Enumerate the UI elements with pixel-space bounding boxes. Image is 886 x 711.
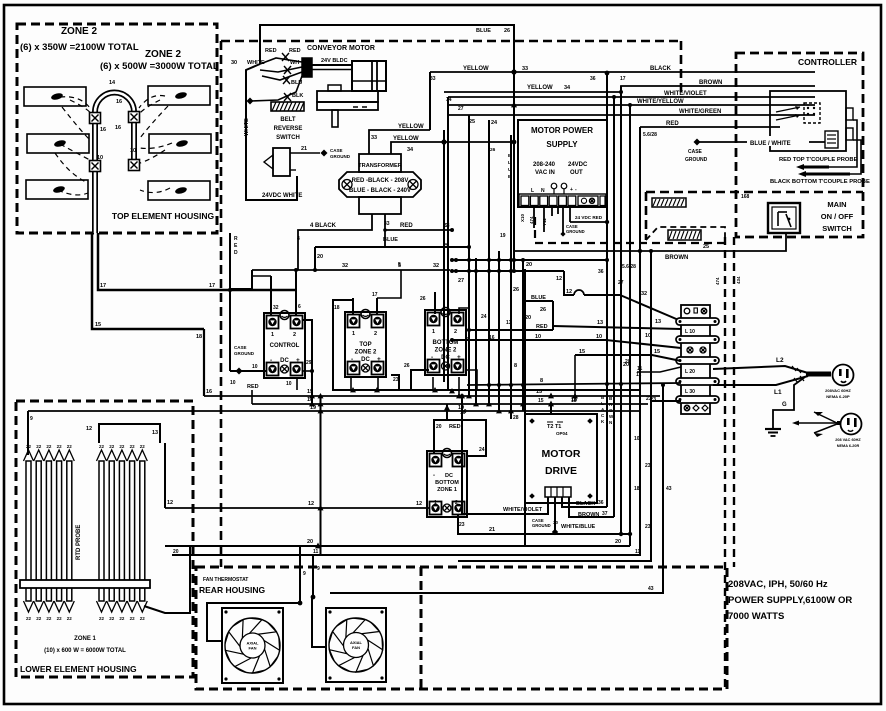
fan return wire [330,592,660,594]
svg-text:30: 30 [553,520,559,525]
wire 12 jog [556,271,620,295]
wire 32 drop to control relay [252,276,279,316]
belt reverse switch text [274,117,303,141]
svg-text:CASE: CASE [330,148,343,153]
svg-text:4: 4 [297,236,300,242]
svg-text:6: 6 [298,304,301,310]
cooling fan FAN1 [222,608,283,683]
cooling fan FAN2 [326,608,386,682]
svg-text:L1: L1 [774,389,782,396]
svg-text:10: 10 [97,155,103,161]
svg-text:36: 36 [590,76,596,82]
vertical WHITE label [244,118,250,136]
case ground label (controller) [685,149,708,163]
element wire connector J1 [90,113,101,124]
svg-text:REAR HOUSING: REAR HOUSING [199,585,266,595]
controller connector [776,103,820,123]
bus 18 [252,390,648,404]
svg-text:17: 17 [620,76,626,82]
svg-text:168: 168 [741,194,750,200]
svg-text:RED: RED [400,223,413,229]
svg-text:WHITE/YELLOW: WHITE/YELLOW [637,99,684,105]
svg-text:22: 22 [119,616,125,621]
svg-text:Y11: Y11 [542,218,547,226]
leg labels [95,283,215,340]
svg-text:BLACK BOTTOM T'COUPLE PROBE: BLACK BOTTOM T'COUPLE PROBE [770,179,870,185]
svg-text:BLK: BLK [292,93,303,99]
svg-text:26: 26 [504,28,510,34]
svg-text:24: 24 [491,120,498,126]
svg-text:22: 22 [36,616,42,621]
red wire down dashed edge [228,233,232,371]
svg-text:CASE: CASE [234,345,247,350]
svg-text:BLUE - BLACK - 240V: BLUE - BLACK - 240V [349,188,411,194]
svg-text:CONTROL: CONTROL [270,343,300,349]
svg-text:BOTTOM: BOTTOM [433,340,459,346]
svg-text:2: 2 [374,331,377,337]
svg-text:15: 15 [95,322,101,328]
element wire connector J2 [129,112,140,123]
svg-text:DC: DC [445,473,453,479]
top feed wire [260,25,517,269]
svg-text:FAN: FAN [352,645,360,650]
svg-text:18: 18 [571,398,577,404]
svg-text:RED: RED [289,48,301,54]
main on off switch divider [646,192,863,240]
transformer secondary red wire [384,214,452,230]
svg-text:CASE: CASE [688,149,703,155]
relay bottom terminal stubs [297,377,459,396]
heating element E4 (top housing) [148,86,210,105]
wire 32 diagonal into block [620,291,681,321]
svg-text:36: 36 [598,500,604,506]
svg-text:L: L [601,401,604,406]
svg-text:ZONE 2: ZONE 2 [145,49,182,60]
svg-text:25: 25 [469,119,475,125]
svg-text:10: 10 [130,148,136,154]
zone 1 text [44,636,126,654]
white-green wire [448,109,815,115]
svg-text:22: 22 [130,616,136,621]
blue wire label 26 [476,28,510,34]
svg-text:30: 30 [231,60,237,66]
svg-text:(10) x 600 W = 6000W TOTAL: (10) x 600 W = 6000W TOTAL [44,648,126,654]
svg-text:MAIN: MAIN [827,200,846,209]
bus 32 [230,263,450,289]
svg-text:26: 26 [420,296,426,302]
svg-text:12: 12 [86,426,92,432]
svg-text:11: 11 [636,372,642,378]
svg-text:208 VAC 60HZ: 208 VAC 60HZ [835,438,861,442]
wire 11 into block [637,366,681,372]
vertical bus 33 [429,72,431,130]
svg-text:33: 33 [384,221,390,227]
white-yellow wire [448,99,815,107]
mid vertical 320 [318,393,324,555]
dashed box below power supply [535,217,727,243]
svg-text:12: 12 [566,289,572,295]
switch output brown wire [514,233,786,261]
L wire 20 [625,103,632,546]
svg-text:2: 2 [454,329,457,335]
svg-text:22: 22 [67,444,73,449]
lower element housing enclosure [16,401,193,677]
svg-text:24VDC WHITE: 24VDC WHITE [262,193,302,199]
svg-text:ZONE 2: ZONE 2 [435,348,457,354]
svg-text:12: 12 [308,501,314,507]
svg-text:34: 34 [564,85,571,91]
solid state relay BOTTOM ZONE 2 [425,308,466,376]
transformer primary yellow wire 34 [391,136,514,154]
rear housing enclosure [196,567,727,689]
black wire motor drive [562,497,607,507]
motor connector plug [302,58,348,77]
svg-text:11: 11 [313,549,319,555]
transformer secondary black wire [297,214,372,270]
conveyor motor label [307,45,375,52]
arch wire labels [97,80,136,161]
top zone 2 relay stubs [353,262,401,314]
motor wire RED [260,48,302,64]
svg-text:27: 27 [458,278,464,284]
svg-text:32: 32 [273,305,279,311]
svg-text:1: 1 [432,329,435,335]
svg-text:13: 13 [597,320,603,326]
svg-text:20: 20 [307,539,313,545]
L wire 23 [458,249,653,561]
bus 11 bottom [172,549,641,555]
svg-text:22: 22 [57,444,63,449]
fuse block F2 [668,230,701,240]
fan1 feed wire [207,546,306,641]
lower housing feed wire [28,411,33,455]
svg-text:16: 16 [115,125,121,131]
wire 29 horizontal [315,247,469,270]
svg-text:27: 27 [458,106,464,112]
svg-text:22: 22 [109,444,115,449]
motor power supply lead wires [520,207,609,237]
svg-text:TOP ELEMENT HOUSING: TOP ELEMENT HOUSING [112,211,215,221]
svg-text:474: 474 [715,277,720,285]
svg-text:SWITCH: SWITCH [276,135,300,141]
svg-text:18: 18 [634,486,640,492]
drop wire 462 [460,394,464,514]
svg-text:22: 22 [99,616,105,621]
svg-text:22: 22 [99,444,105,449]
controller module box [770,91,846,151]
svg-text:(6) x 500W =3000W TOTAL: (6) x 500W =3000W TOTAL [100,61,219,72]
switch to case ground wire [290,146,351,159]
svg-text:12: 12 [167,500,173,506]
red top thermocouple probe [779,120,858,170]
svg-text:33: 33 [371,135,377,141]
svg-text:17: 17 [372,292,378,298]
white-blue wire motor drive [532,497,596,535]
svg-text:DC: DC [280,358,289,364]
svg-text:NEMA 6-20R: NEMA 6-20R [837,444,860,448]
heating element E2 (top housing) [27,134,89,153]
svg-text:8: 8 [540,378,543,384]
svg-text:RED: RED [449,424,461,430]
svg-text:32: 32 [433,263,439,269]
svg-text:L2: L2 [776,357,784,364]
svg-text:10: 10 [286,381,292,387]
wire numbers top [430,76,626,82]
svg-text:GROUND: GROUND [685,157,708,163]
white-violet wire [448,91,815,97]
svg-text:5.6/28: 5.6/28 [643,132,657,138]
svg-text:24VDC: 24VDC [568,162,588,168]
motor wire BLK [247,76,304,105]
vertical BLUE label [508,153,512,180]
svg-text:26: 26 [490,147,496,153]
svg-text:YELLOW: YELLOW [527,85,553,91]
svg-text:24: 24 [481,314,487,320]
bus junction marks [309,387,578,413]
svg-text:LOWER ELEMENT HOUSING: LOWER ELEMENT HOUSING [20,664,137,674]
svg-text:5: 5 [466,337,469,343]
svg-text:25: 25 [703,244,709,250]
svg-text:22: 22 [119,444,125,449]
svg-text:BROWN: BROWN [665,255,688,261]
svg-text:24: 24 [479,447,485,453]
motor body drawing [312,61,386,127]
motor wire BLU [262,72,302,86]
RTD probe label [76,525,82,560]
svg-text:VAC IN: VAC IN [535,170,555,176]
svg-text:SWITCH: SWITCH [822,224,852,233]
svg-text:33: 33 [444,223,450,229]
cluster connector stubs [452,260,607,271]
solid state relay BOTTOM ZONE 1 [427,449,467,518]
wire leg B from top housing [98,233,296,290]
svg-text:NEMA 6-20P: NEMA 6-20P [826,394,850,399]
svg-text:26: 26 [404,363,410,369]
cluster labels [443,119,636,355]
transformer blue wire [383,228,398,247]
svg-text:10: 10 [535,334,541,340]
svg-text:208VAC 60HZ: 208VAC 60HZ [825,388,851,393]
svg-text:208-240: 208-240 [533,162,556,168]
heating element E5 (top housing) [149,134,211,153]
svg-text:4 BLACK: 4 BLACK [310,223,337,229]
L2 wire to plug [713,357,808,373]
svg-text:20: 20 [625,359,631,365]
svg-text:22: 22 [26,444,32,449]
svg-text:ZONE 2: ZONE 2 [61,26,98,37]
heating element E3 (top housing) [26,180,88,199]
svg-text:17: 17 [209,283,215,289]
motor power supply terminal strip [519,183,606,207]
svg-text:N: N [541,188,545,194]
cluster junction dots [450,228,609,273]
wire 12 to bottom zone 1 relay [165,501,429,510]
blue loop wire [523,295,553,330]
top zone 2 wrap wire [333,300,399,390]
svg-text:GROUND: GROUND [566,229,585,234]
label 29 19 33 [500,233,506,239]
svg-text:15: 15 [538,398,544,404]
svg-text:GROUND: GROUND [234,351,255,356]
heating element E6 (top housing) [148,181,210,200]
L wire 11 [636,127,642,556]
svg-text:20: 20 [317,254,323,260]
svg-text:16: 16 [100,127,106,133]
motor power supply box [518,120,607,207]
svg-text:32: 32 [641,291,647,297]
bottom zone 2 wrap wire [404,363,477,390]
svg-text:434: 434 [736,276,741,284]
wire 6 drop [296,270,301,316]
svg-text:BROWN: BROWN [699,80,722,86]
svg-text:MOTOR: MOTOR [542,448,581,460]
vertical bus cluster center [444,97,525,546]
svg-text:22: 22 [57,616,63,621]
svg-text:-: - [433,473,435,479]
svg-text:16: 16 [116,99,122,105]
svg-text:DC: DC [361,357,370,363]
wire 21 from relay [458,515,632,536]
red wire loop bottom zone 1 relay [434,420,486,456]
svg-text:14: 14 [109,80,116,86]
svg-text:18: 18 [334,305,340,311]
svg-text:SUPPLY: SUPPLY [546,140,578,149]
svg-text:WHITE/BLUE: WHITE/BLUE [561,524,596,530]
svg-text:22: 22 [46,616,52,621]
svg-text:22: 22 [109,616,115,621]
controller terminal grill [825,131,838,148]
svg-text:BOTTOM: BOTTOM [435,480,459,486]
power supply note [728,579,852,622]
lower element housing title [20,664,137,674]
svg-text:FAN: FAN [249,646,257,651]
svg-text:TOP: TOP [359,342,371,348]
svg-text:REVERSE: REVERSE [274,126,303,132]
svg-text:12: 12 [416,501,422,507]
wire 8 long bus [467,362,681,387]
G wire and ground [765,377,805,436]
svg-text:21: 21 [301,146,307,152]
svg-text:22: 22 [140,616,146,621]
svg-text:DRIVE: DRIVE [545,465,577,477]
top element housing title [112,211,215,221]
svg-text:WHITE/VIOLET: WHITE/VIOLET [664,91,707,97]
lower housing inner jumper [86,424,160,443]
red wire 13 into block [467,319,681,332]
svg-text:12: 12 [556,276,562,282]
central dashed enclosure [221,41,681,567]
24VDC WHITE loop wire [246,64,302,200]
svg-text:23: 23 [393,377,399,383]
svg-text:+: + [570,187,573,193]
svg-text:1: 1 [271,332,274,338]
drop wire brown [612,95,616,517]
bus 20 bottom [165,539,630,548]
svg-text:GROUND: GROUND [330,154,351,159]
svg-text:FAN THERMOSTAT: FAN THERMOSTAT [203,577,248,583]
svg-text:18: 18 [196,334,202,340]
svg-text:G: G [782,402,787,408]
plug P1 (NEMA) [806,365,854,400]
svg-text:10: 10 [634,436,640,442]
svg-text:YELLOW: YELLOW [398,124,424,130]
main on off switch icon [768,203,800,233]
svg-text:13: 13 [506,320,512,326]
svg-text:9: 9 [317,566,320,572]
vertical RED label near dashed edge [234,236,238,256]
svg-text:T2 T1: T2 T1 [547,424,561,430]
svg-text:36: 36 [598,269,604,275]
svg-text:RED: RED [536,324,548,330]
svg-text:9: 9 [303,571,306,577]
lower housing wire 12 drop [165,443,173,508]
white-violet wire motor drive [462,497,548,514]
svg-text:22: 22 [67,616,73,621]
cable run 434 dashed [734,237,741,567]
belt reverse switch hatched label plate [271,102,304,111]
dashed trapezoid around F2 [646,227,725,240]
svg-text:20: 20 [436,424,442,430]
svg-text:BROWN: BROWN [578,512,599,518]
svg-text:5: 5 [398,262,401,268]
svg-text:WHITE/GREEN: WHITE/GREEN [679,109,721,115]
svg-text:20: 20 [525,315,531,321]
svg-text:24 VDC RED: 24 VDC RED [575,215,603,220]
svg-text:10: 10 [230,380,236,386]
svg-text:43: 43 [666,486,672,492]
svg-text:(6) x 350W =2100W TOTAL: (6) x 350W =2100W TOTAL [20,42,139,53]
svg-text:22: 22 [130,444,136,449]
junction dots on top buses [441,97,516,153]
svg-text:19: 19 [500,233,506,239]
svg-text:N: N [609,420,612,425]
svg-text:X10: X10 [520,213,525,222]
svg-text:L 30: L 30 [685,389,695,395]
svg-text:16: 16 [489,335,495,341]
svg-text:YELLOW: YELLOW [463,66,489,72]
svg-text:BLUE / WHITE: BLUE / WHITE [750,141,791,147]
svg-text:23: 23 [645,463,651,469]
svg-text:D: D [234,250,238,256]
svg-text:ON / OFF: ON / OFF [821,212,854,221]
svg-text:U: U [508,167,512,173]
wire leg A from top housing [92,233,204,396]
svg-text:24V BLDC: 24V BLDC [321,58,348,64]
svg-text:20: 20 [173,549,179,555]
svg-text:21: 21 [489,527,495,533]
svg-text:MOTOR POWER: MOTOR POWER [531,126,593,135]
terminal block TB1 [676,305,719,414]
motor drive supply stubs [461,393,577,422]
svg-text:RED: RED [265,48,277,54]
svg-text:474: 474 [529,216,534,224]
top element housing enclosure [17,24,217,233]
svg-text:B: B [508,153,512,159]
transformer primary yellow wire 33 [369,124,430,154]
solid state relay TOP ZONE 2 [345,310,386,378]
svg-text:26: 26 [513,287,519,293]
black bottom thermocouple probe [770,140,870,185]
right edge wire labels [634,436,640,492]
control relay case ground node [230,345,292,390]
brown wire jog [444,80,815,92]
motor drive box [525,414,597,503]
svg-text:WH: WH [290,60,299,66]
svg-text:OUT: OUT [570,170,583,176]
svg-text:17: 17 [100,283,106,289]
svg-text:BLUE: BLUE [531,295,546,301]
vertical BROWN label [609,396,614,425]
